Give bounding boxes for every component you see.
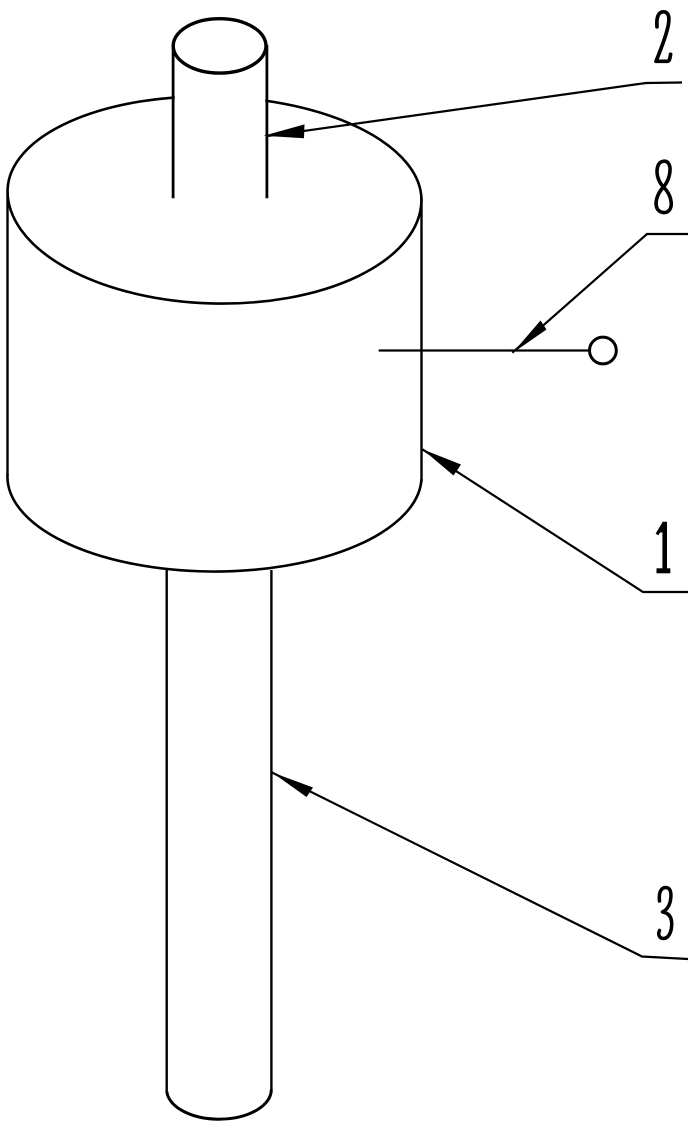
label 3 digit xyxy=(659,888,672,939)
cylinder body 1: top ellipse xyxy=(5,91,425,309)
leader line for label 3 xyxy=(272,772,688,959)
label 1 digit xyxy=(657,522,671,571)
arrowhead for label 2 xyxy=(264,124,305,138)
pointer line 8 (horizontal) xyxy=(379,349,589,351)
shaft 2 (top rod): right side line xyxy=(265,45,268,198)
shaft 2 (top rod): top ellipse cap xyxy=(173,19,266,73)
arrowhead for label 1 xyxy=(422,449,461,475)
shaft 2 (top rod): white occluder xyxy=(175,47,265,197)
label 8 digit xyxy=(656,161,671,212)
small circle marker 8 xyxy=(590,337,617,364)
leader line for label 8 xyxy=(512,234,688,353)
cylinder body 1: left side line xyxy=(6,193,8,476)
arrowhead for label 3 xyxy=(272,772,313,797)
arrowhead for label 8 xyxy=(512,321,546,354)
shaft 3 (bottom rod): left side line xyxy=(165,568,167,1093)
label 2 digit xyxy=(656,12,671,62)
shaft 3 (bottom rod): bottom cap arc xyxy=(167,1090,272,1120)
shaft 3 (bottom rod): right side line xyxy=(270,570,272,1090)
shaft 2 (top rod): left side line xyxy=(172,45,175,198)
leader line for label 2 xyxy=(267,83,683,137)
cylinder body 1: right side line xyxy=(420,198,422,481)
cylinder body 1: bottom front arc xyxy=(7,474,421,572)
leader line for label 1 xyxy=(422,449,688,592)
